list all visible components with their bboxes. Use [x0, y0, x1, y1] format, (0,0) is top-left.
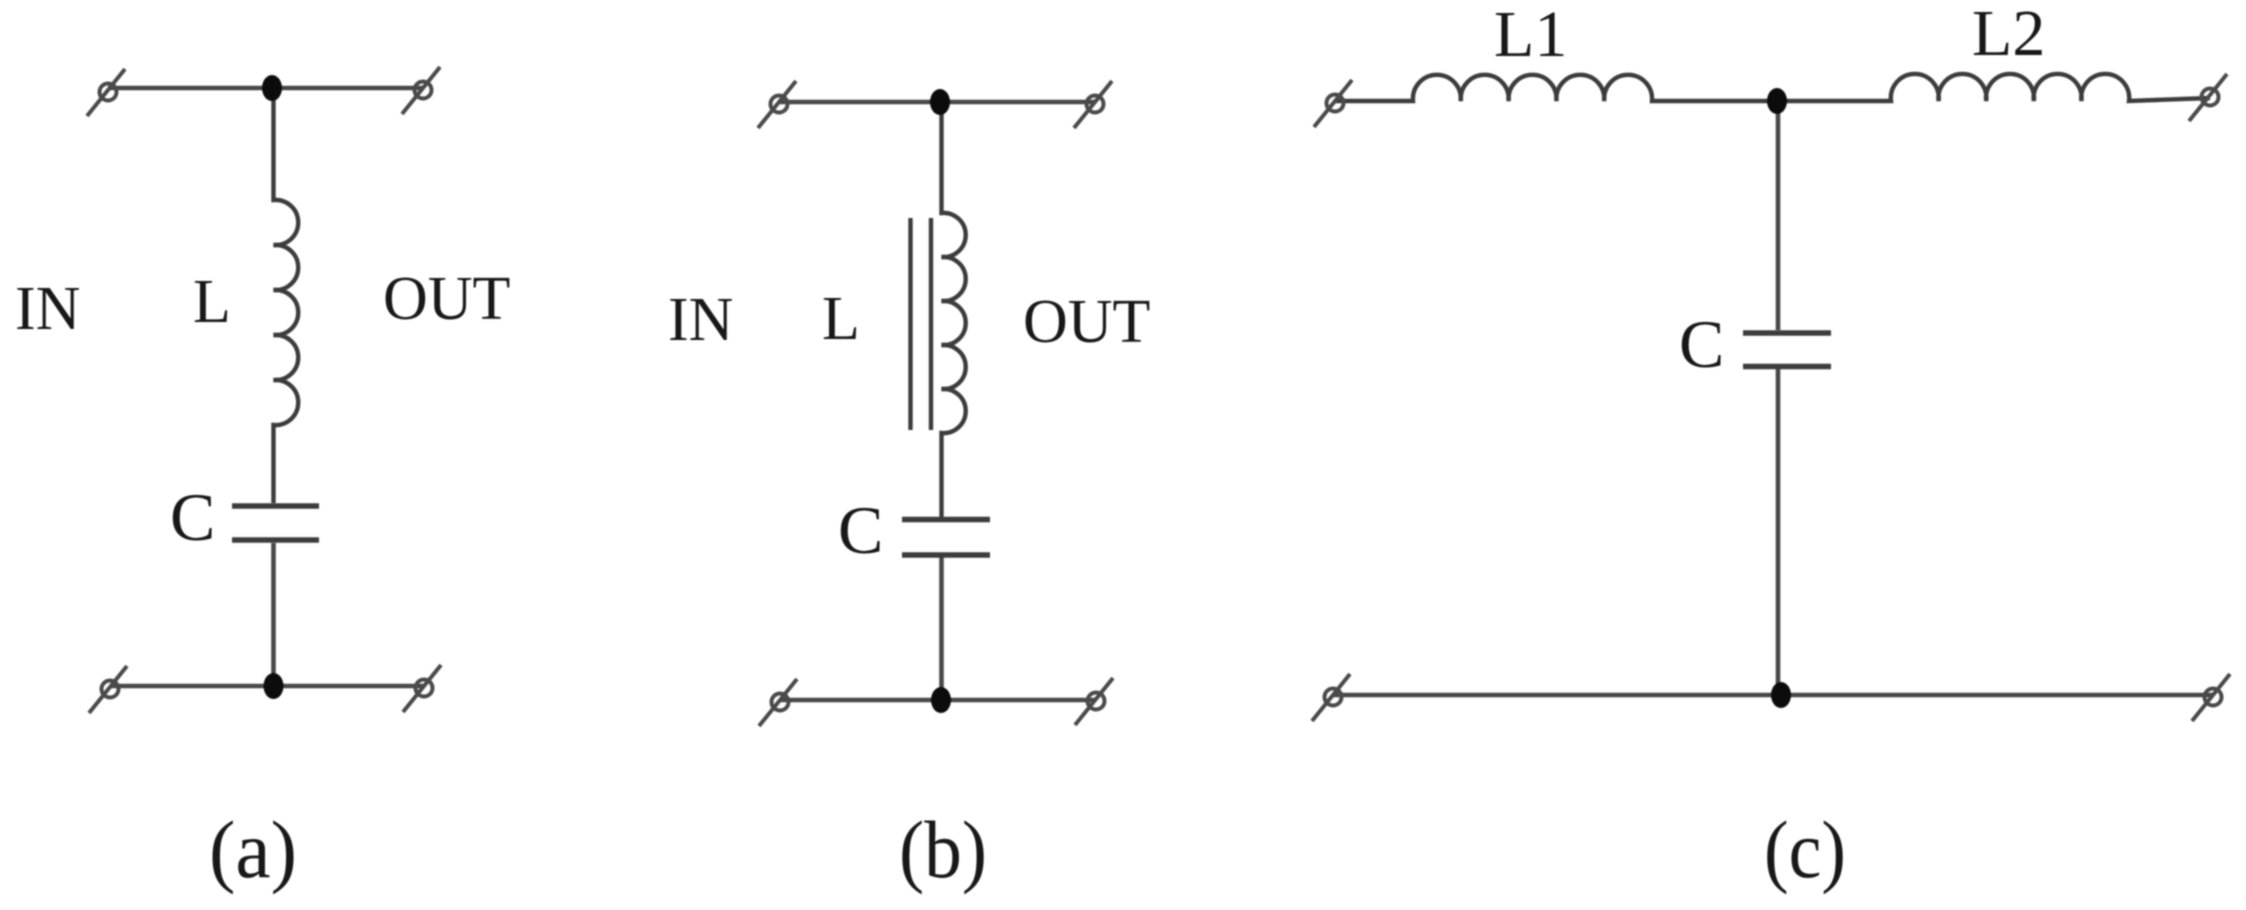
svg-text:C: C: [170, 479, 215, 555]
svg-text:IN: IN: [668, 286, 733, 354]
svg-text:L1: L1: [1494, 0, 1567, 71]
svg-text:(a): (a): [209, 804, 297, 895]
svg-text:IN: IN: [15, 275, 80, 343]
svg-text:OUT: OUT: [383, 265, 510, 333]
svg-text:L2: L2: [1972, 0, 2045, 70]
svg-text:L: L: [193, 268, 231, 336]
svg-text:(b): (b): [899, 804, 987, 895]
svg-text:OUT: OUT: [1023, 288, 1150, 356]
svg-text:(c): (c): [1764, 804, 1846, 895]
svg-text:C: C: [838, 492, 883, 568]
svg-text:C: C: [1679, 306, 1724, 382]
svg-text:L: L: [822, 285, 860, 353]
